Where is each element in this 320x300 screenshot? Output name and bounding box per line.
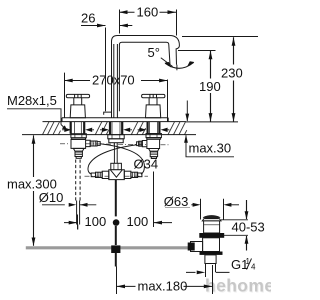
drain body (203, 238, 220, 252)
svg-text:100: 100 (127, 214, 149, 229)
svg-text:160: 160 (137, 5, 159, 20)
spout inner profile (119, 42, 170, 111)
right handle bonnet (146, 105, 161, 118)
T left arm ridged nipple (96, 172, 103, 177)
svg-text:Ø63: Ø63 (164, 194, 189, 209)
drain pivot port (191, 242, 203, 252)
mounting clamp arrows at shanks (64, 128, 167, 132)
T right arm ridged nipple (131, 172, 138, 177)
deck plate (escutcheon) (62, 118, 168, 122)
drain dome cap (203, 216, 220, 218)
rod below junction (115, 253, 117, 267)
svg-text:5°: 5° (148, 45, 160, 60)
left valve taper (73, 148, 84, 151)
ext line 26 left (105, 28, 107, 112)
right valve washer (147, 138, 161, 140)
right valve bottom nipple (150, 151, 157, 156)
svg-text:190: 190 (199, 79, 221, 94)
dim 100-100 arrows and dot (64, 222, 172, 224)
left valve dashed supply tail (76, 160, 80, 201)
drain cap base (202, 219, 221, 221)
dim max.180 (117, 285, 213, 287)
drain bottom band (200, 252, 223, 255)
drain tailpipe (205, 255, 216, 264)
T right arm cap (138, 173, 142, 177)
svg-text:4: 4 (251, 263, 256, 272)
left valve shank (71, 122, 85, 134)
spout outer profile (112, 36, 180, 118)
ext line 190 top (178, 50, 216, 52)
svg-text:Ø10: Ø10 (39, 190, 64, 205)
tailpipe ext lines (206, 264, 216, 278)
drain centerline ext (212, 265, 214, 294)
left valve body (71, 139, 86, 148)
right valve shank (148, 122, 160, 134)
ext line 160/26 shared at x119 (119, 10, 121, 34)
T left arm nut (102, 171, 109, 178)
dim max.300 vertical (33, 135, 35, 245)
ext line 230 top (182, 36, 258, 38)
center washer block (109, 139, 123, 143)
T-fitting body (109, 170, 125, 180)
dim 26 (81, 25, 132, 27)
5deg leader (161, 58, 173, 67)
spout outlet mouth line (176, 65, 178, 71)
countertop bottom line (extends left for max.300 extension) (22, 134, 196, 136)
right valve taper (149, 149, 160, 152)
right valve locking nut (146, 134, 161, 138)
svg-text:230: 230 (221, 66, 243, 81)
svg-text:hehome: hehome (205, 276, 271, 296)
left valve washer (72, 138, 86, 140)
left handle stem (74, 98, 82, 105)
svg-text:Ø34: Ø34 (134, 157, 159, 172)
dim 190 vertical (210, 51, 212, 122)
horizontal pop-up rod (gray) (26, 246, 190, 249)
svg-text:40-53: 40-53 (232, 219, 265, 234)
countertop top line (43, 121, 187, 123)
svg-text:M28x1,5: M28x1,5 (7, 93, 57, 108)
counter hatching (43, 122, 187, 135)
pop-up junction block (111, 245, 120, 253)
hose curve from left valve to T right arm (100, 144, 144, 174)
right valve body (147, 139, 160, 148)
ext line 270x70 left (64, 73, 66, 118)
max.30 upper arrow above deck (186, 101, 188, 122)
ext line 270x70 right (167, 80, 169, 122)
left valve locking nut (71, 134, 86, 138)
hose curve from right valve to T left arm (88, 145, 137, 174)
T right arm nut (124, 171, 131, 178)
dim 160 line (119, 11, 176, 13)
svg-text:270x70: 270x70 (92, 73, 135, 88)
T centerline dash-dot (85, 175, 149, 177)
ext line left supply for 100 dim (77, 215, 79, 230)
right handle stem (149, 98, 157, 105)
right valve side nipple (points left) (142, 141, 147, 147)
svg-text:max.180: max.180 (138, 278, 188, 293)
label G1 1/4 with leader (186, 271, 230, 273)
valve nipple centerline dash-dot (60, 144, 169, 145)
pop-up vertical rod (115, 180, 117, 217)
T left arm cap (91, 173, 95, 177)
left handle cross bar (66, 94, 89, 97)
pop-up rod below deck (114, 143, 117, 164)
svg-text:26: 26 (81, 10, 95, 25)
left valve side nipple (86, 140, 91, 146)
drain neck (204, 221, 220, 233)
left valve bottom nipple (75, 151, 82, 156)
rod coupling (111, 163, 122, 170)
pop-up rod inside spout (114, 44, 118, 118)
spout base left step (104, 112, 112, 115)
drain flange (black band) (199, 233, 224, 238)
left supply pipe solid (O10) (77, 201, 80, 225)
svg-text:max.30: max.30 (189, 141, 232, 156)
dim 270x70 (64, 80, 167, 82)
right handle cross bar (142, 94, 165, 97)
ext line right valve center for 100 dim (153, 172, 155, 228)
drain pivot nut (188, 243, 195, 251)
center locking nut (108, 135, 124, 139)
ext line 160 right (176, 10, 178, 36)
dim 230 vertical (233, 37, 235, 121)
left handle bonnet (70, 105, 85, 118)
svg-text:100: 100 (85, 214, 107, 229)
O63 ext lines (201, 199, 224, 220)
swivel arc 5deg (165, 62, 194, 68)
center shank (110, 122, 122, 135)
dim 40-53 (221, 220, 248, 236)
